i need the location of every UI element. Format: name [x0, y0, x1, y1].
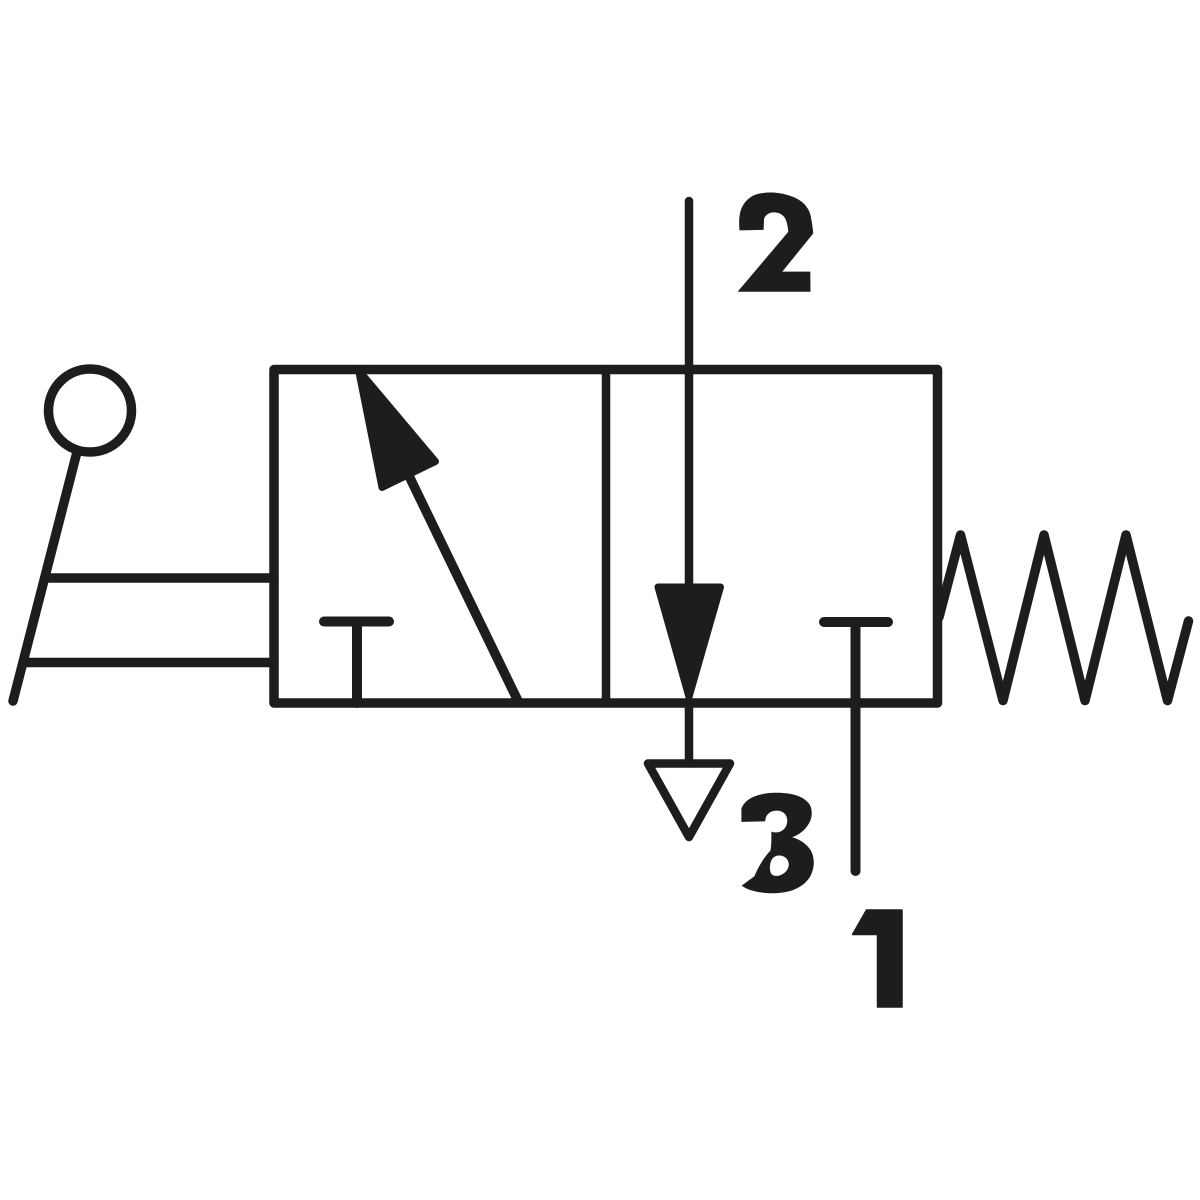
- left position flow arrow shaft: [410, 478, 518, 701]
- label port 2: [738, 193, 814, 292]
- port 1 line through valve bottom: [851, 624, 861, 871]
- label port 1: [853, 910, 903, 1007]
- lever arm: [13, 452, 77, 701]
- port 3 line below valve: [685, 703, 694, 764]
- valve body frame: [274, 370, 938, 704]
- return spring: [939, 535, 1189, 701]
- lever upper link wire: [45, 573, 274, 583]
- right position blocked port T bar: [824, 617, 888, 627]
- lever lower link wire: [26, 658, 275, 668]
- left position flow arrow head: [359, 370, 436, 488]
- port 2 flow arrow head (down): [658, 587, 721, 697]
- port 3 exhaust triangle: [648, 764, 730, 838]
- port 2 line above valve: [685, 201, 694, 592]
- label port 3: [741, 793, 813, 893]
- left position blocked port T bar: [324, 617, 389, 627]
- position divider: [602, 370, 611, 704]
- lever knob circle: [49, 369, 132, 452]
- left position blocked port T stem: [352, 624, 362, 703]
